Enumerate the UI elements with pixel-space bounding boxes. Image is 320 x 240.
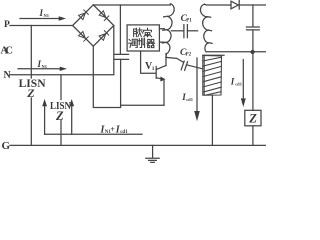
diode D2 upper-right [99,11,109,21]
label LISN 1 [19,78,47,90]
parasitic capacitance C_P1 label [181,14,193,24]
svg-text:N: N [4,70,12,81]
label I_cd2 [230,77,243,87]
C_P1 plates [184,25,188,38]
LISN 2 impedance wire upper [60,75,62,100]
bulk capacitor lead bottom [120,59,122,106]
wire heatsink top stub [203,54,224,56]
label LISN 2 [50,100,71,112]
label I_N1 + I_cd1 [100,124,129,135]
diode D3 lower-left [79,32,89,42]
wire emitter down [163,79,165,105]
bulk capacitor plates [114,54,129,59]
wire P line [10,25,73,27]
label Z of LISN 1 [26,86,35,100]
label I_N2 [37,59,48,69]
svg-text:I: I [230,77,235,87]
diode bridge diamond [73,5,114,46]
svg-text:cd1: cd1 [235,82,243,87]
wire PWM output to base [141,51,156,73]
svg-text:N1: N1 [42,64,48,69]
LISN 2 impedance wire lower [60,121,62,146]
node P label [4,20,10,30]
heatsink hatched box [203,55,222,95]
ground bus wire [10,144,266,146]
svg-text:N1: N1 [44,13,50,18]
svg-text:1: 1 [152,66,155,72]
bulk capacitor lead top [119,5,121,54]
svg-text:P2: P2 [186,52,192,57]
svg-text:Z: Z [55,109,64,123]
svg-text:AC: AC [1,46,14,57]
C_P2 wire left diagonal [166,57,183,62]
ground symbol [146,145,159,162]
output capacitor lead bottom [252,30,254,52]
wire PWM feedback ticks to winding [159,29,164,42]
label Z in box [248,111,257,125]
LISN 1 impedance wire lower [30,98,32,145]
svg-text:cd1: cd1 [120,130,128,135]
wire negative rail to emitter [121,104,164,106]
svg-text:cd1: cd1 [186,97,194,102]
diode D1 upper-left [79,10,89,20]
output diode [231,1,239,9]
wire bridge negative lead [93,46,120,107]
wire heatsink to ground [211,95,213,145]
current arrow I_cd2 (into LISN Z) [241,60,246,108]
C_P1 wire left [172,30,184,32]
wire top positive rail [93,4,170,6]
wire output node to Z box [252,52,254,111]
label I_cd1 [181,92,193,102]
label Z of LISN 2 [55,109,64,123]
transistor V1 label [145,61,155,72]
impedance Z box [245,110,261,126]
node N label [4,70,12,81]
wire diode to corner and right edge [239,4,266,6]
node AC label [1,46,14,57]
transformer secondary winding [200,4,212,52]
svg-text:P1: P1 [186,19,192,24]
C_P2 slanted plates [181,61,187,70]
diode D4 lower-right [99,31,109,41]
svg-text:Z: Z [248,111,257,125]
wire secondary top to diode [205,3,231,6]
parasitic capacitance C_P2 label [180,48,192,58]
current arrow I_N2 on N line [18,67,67,71]
return current arrow right [69,99,74,134]
node G label [2,140,11,152]
svg-text:+: + [110,125,115,134]
PWM text line1 mai-kuan (drawn strokes) [134,28,152,37]
current arrow I_N1 on P line [20,16,66,20]
return current arrow left [42,99,47,134]
junction node dot [251,50,255,54]
C_P1 wire right [187,30,197,32]
transistor V1 symbol [156,54,166,82]
svg-text:P: P [4,20,10,30]
label I_N1 [39,8,50,18]
PWM controller box [127,25,159,51]
PWM text line2 tiao-zhi-qi (drawn strokes) [129,38,155,48]
output capacitor plates [247,27,260,30]
wire primary bottom to collector node [165,54,167,58]
transformer primary winding [162,4,174,54]
svg-text:G: G [2,140,11,152]
wire Z box to ground [252,126,254,146]
wire secondary bottom rail [206,51,266,53]
LISN 1 impedance wire upper [30,26,32,79]
C_P2 wire right diagonal [186,65,202,69]
current arrow I_cd1 (heatsink path) [194,58,200,121]
output capacitor lead top [252,5,254,27]
wire N line [10,26,114,75]
return current path line [45,133,142,135]
